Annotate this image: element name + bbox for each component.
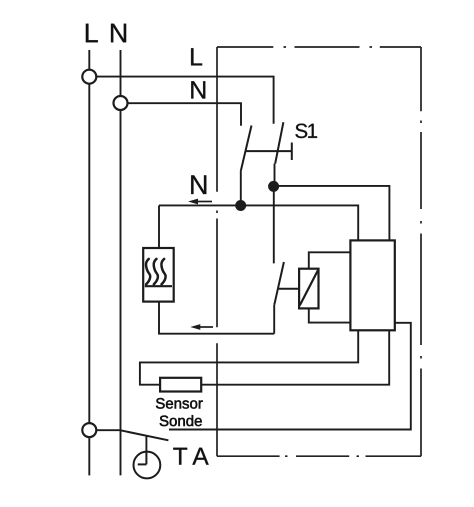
wire controller bottom to sensor (out) — [140, 330, 358, 384]
wire switched L node down to relay contact — [273, 186, 275, 263]
switch S1 coupling bar end tick — [291, 143, 293, 161]
arrow current direction to heater (top) — [188, 199, 212, 205]
switch S1 coupling bar — [246, 150, 292, 152]
label Sensor — [156, 398, 203, 409]
wire mains N vertical lower — [120, 110, 122, 475]
wire relay actuator top to controller — [309, 252, 351, 268]
wire controller right to TA contact — [169, 323, 411, 430]
wire L bottom terminal to TA switch pivot — [96, 429, 120, 431]
enclosure dash-dot border left — [216, 47, 218, 456]
heating element box — [143, 248, 174, 302]
terminal circle L bottom (TA feed) — [82, 423, 96, 437]
switch S1 blade L pole — [275, 122, 283, 163]
heating element squiggle 2 — [154, 259, 158, 284]
wire switched L node to controller box top — [274, 186, 390, 241]
wire L feed into enclosure down to S1 — [96, 77, 273, 124]
wire mains N vertical upper — [120, 50, 122, 96]
switch S1 blade N pole — [241, 126, 252, 171]
label L (mains supply) — [86, 24, 98, 43]
wire heater top stem — [158, 205, 160, 248]
wire S1 L pole to junction — [274, 164, 276, 187]
terminal circle L top — [82, 70, 96, 84]
relay actuator box — [299, 269, 318, 309]
wire mains L vertical middle — [88, 84, 90, 423]
terminal circle N — [114, 96, 128, 110]
TA clock actuator stem — [145, 436, 147, 452]
wire relay actuator bottom to controller — [309, 308, 351, 322]
relay actuator diagonal — [300, 270, 318, 305]
label N (mains supply) — [111, 24, 126, 43]
label L (inside feed) — [191, 48, 202, 65]
enclosure dash-dot border bottom — [217, 455, 421, 457]
wire switched N rail to controller box top — [159, 205, 358, 240]
wire S1 N pole to junction — [240, 171, 242, 206]
wire sensor to controller (return) — [201, 330, 389, 384]
wire heater bottom to relay contact — [159, 302, 274, 334]
relay actuator link bar — [278, 288, 299, 290]
heating element squiggle 3 — [161, 259, 165, 284]
enclosure dash-dot border right — [420, 47, 422, 456]
label Sonde — [160, 415, 202, 426]
enclosure dash-dot border top — [217, 46, 421, 48]
switch S1 label — [295, 124, 317, 139]
heating element base bar — [145, 285, 172, 287]
wire mains L vertical upper — [88, 50, 90, 70]
wire relay contact to heater return — [273, 305, 275, 334]
TA clock hand horizontal — [138, 463, 147, 465]
controller box U1 — [350, 240, 394, 330]
relay contact blade — [274, 262, 284, 305]
wire N feed into enclosure down to S1 — [128, 103, 241, 126]
sensor resistor body — [160, 378, 201, 392]
arrow current direction from heater (bottom) — [190, 324, 213, 330]
TA clock symbol circle — [134, 452, 161, 479]
heating element squiggle 1 — [146, 259, 150, 284]
TA clock hand vertical — [145, 452, 147, 464]
label TA — [173, 448, 208, 465]
wire mains L vertical lower — [88, 437, 90, 475]
label N (inside feed) — [191, 81, 205, 98]
TA switch blade — [120, 430, 168, 440]
junction dot switched L node — [268, 181, 279, 192]
label N (switched neutral to heater) — [191, 175, 206, 194]
junction dot switched N node — [235, 200, 246, 211]
